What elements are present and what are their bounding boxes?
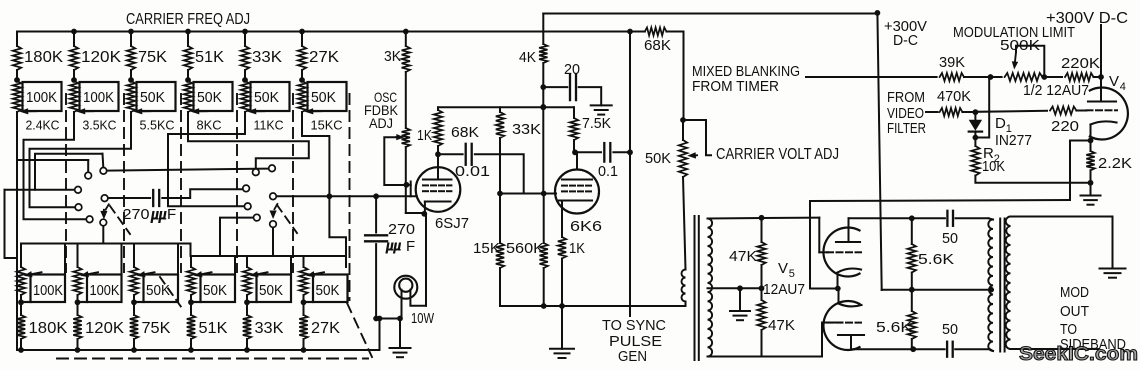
- svg-text:IN277: IN277: [995, 132, 1032, 149]
- svg-text:51K: 51K: [199, 320, 229, 337]
- svg-text:VIDEO: VIDEO: [887, 106, 924, 122]
- svg-text:220: 220: [1051, 118, 1079, 135]
- svg-text:47K: 47K: [768, 317, 795, 334]
- svg-text:100K: 100K: [26, 90, 57, 106]
- svg-text:TO SYNC: TO SYNC: [602, 317, 666, 334]
- svg-text:120K: 120K: [85, 320, 125, 337]
- svg-text:100K: 100K: [33, 283, 63, 299]
- svg-text:47K: 47K: [729, 248, 757, 265]
- svg-text:0.1: 0.1: [598, 163, 618, 180]
- svg-text:50K: 50K: [140, 90, 165, 106]
- svg-text:5: 5: [789, 268, 795, 280]
- svg-text:50K: 50K: [254, 90, 279, 106]
- svg-text:20: 20: [564, 61, 580, 78]
- svg-text:50K: 50K: [311, 90, 336, 106]
- svg-text:270: 270: [123, 206, 150, 223]
- svg-text:270: 270: [388, 221, 415, 238]
- svg-text:100K: 100K: [83, 90, 114, 106]
- svg-text:2.2K: 2.2K: [1098, 155, 1132, 172]
- svg-text:33K: 33K: [255, 320, 285, 337]
- svg-text:560K: 560K: [506, 240, 544, 257]
- svg-text:2.4KC: 2.4KC: [26, 118, 60, 133]
- svg-text:50K: 50K: [146, 283, 170, 299]
- svg-text:5.6K: 5.6K: [918, 251, 954, 268]
- svg-text:10K: 10K: [982, 158, 1005, 175]
- svg-text:FROM: FROM: [887, 90, 925, 106]
- svg-text:33K: 33K: [512, 121, 541, 138]
- svg-text:180K: 180K: [24, 49, 64, 66]
- svg-text:75K: 75K: [142, 320, 172, 337]
- svg-text:220K: 220K: [1061, 55, 1100, 72]
- svg-text:50K: 50K: [645, 150, 671, 167]
- svg-text:V: V: [778, 260, 789, 277]
- svg-text:GEN: GEN: [618, 348, 647, 365]
- svg-text:FROM TIMER: FROM TIMER: [692, 79, 779, 95]
- svg-text:470K: 470K: [937, 88, 971, 105]
- svg-text:39K: 39K: [939, 54, 965, 71]
- svg-text:μμ: μμ: [150, 206, 167, 223]
- svg-text:6K6: 6K6: [570, 218, 602, 235]
- svg-text:27K: 27K: [311, 320, 341, 337]
- svg-text:4: 4: [1120, 81, 1126, 93]
- svg-text:4K: 4K: [519, 49, 536, 66]
- svg-text:50K: 50K: [197, 90, 222, 106]
- svg-text:68K: 68K: [644, 37, 671, 54]
- svg-text:SeekIC.com: SeekIC.com: [1019, 343, 1138, 365]
- svg-text:50K: 50K: [316, 283, 340, 299]
- svg-text:50K: 50K: [203, 283, 227, 299]
- svg-text:50: 50: [942, 321, 958, 338]
- svg-text:5.5KC: 5.5KC: [140, 118, 175, 133]
- svg-text:15K: 15K: [473, 240, 500, 257]
- svg-text:27K: 27K: [309, 49, 340, 66]
- svg-text:50K: 50K: [259, 283, 283, 299]
- svg-text:12AU7: 12AU7: [763, 281, 805, 298]
- svg-text:50: 50: [942, 230, 958, 247]
- svg-text:F: F: [167, 206, 176, 223]
- svg-text:MOD: MOD: [1060, 284, 1089, 301]
- svg-text:10W: 10W: [411, 310, 435, 327]
- svg-text:D-C: D-C: [893, 32, 918, 49]
- svg-text:CARRIER FREQ ADJ: CARRIER FREQ ADJ: [126, 11, 250, 28]
- svg-text:F: F: [406, 238, 415, 255]
- svg-text:6SJ7: 6SJ7: [435, 215, 469, 232]
- svg-text:CARRIER VOLT ADJ: CARRIER VOLT ADJ: [716, 146, 839, 163]
- svg-text:180K: 180K: [29, 320, 69, 337]
- svg-text:11KC: 11KC: [254, 118, 284, 133]
- svg-text:μμ: μμ: [385, 238, 402, 254]
- svg-text:15KC: 15KC: [311, 118, 343, 133]
- svg-text:68K: 68K: [451, 124, 479, 141]
- svg-text:FILTER: FILTER: [887, 121, 926, 137]
- svg-text:8KC: 8KC: [197, 118, 222, 133]
- svg-text:OUT: OUT: [1060, 303, 1089, 320]
- svg-text:75K: 75K: [138, 49, 168, 66]
- svg-text:5.6K: 5.6K: [876, 319, 912, 336]
- svg-text:33K: 33K: [252, 49, 283, 66]
- svg-text:0.01: 0.01: [455, 163, 490, 180]
- svg-text:51K: 51K: [195, 49, 225, 66]
- svg-text:3K: 3K: [384, 48, 401, 65]
- svg-text:V: V: [1109, 73, 1120, 90]
- svg-text:1K: 1K: [417, 127, 432, 144]
- svg-text:MIXED BLANKING: MIXED BLANKING: [692, 64, 800, 80]
- svg-text:100K: 100K: [90, 283, 120, 299]
- svg-text:120K: 120K: [81, 49, 122, 66]
- svg-text:1/2 12AU7: 1/2 12AU7: [1023, 82, 1089, 99]
- svg-text:3.5KC: 3.5KC: [83, 118, 117, 133]
- svg-text:1K: 1K: [569, 240, 585, 257]
- svg-text:D: D: [995, 115, 1006, 132]
- svg-text:7.5K: 7.5K: [582, 115, 611, 132]
- svg-text:ADJ: ADJ: [369, 115, 393, 131]
